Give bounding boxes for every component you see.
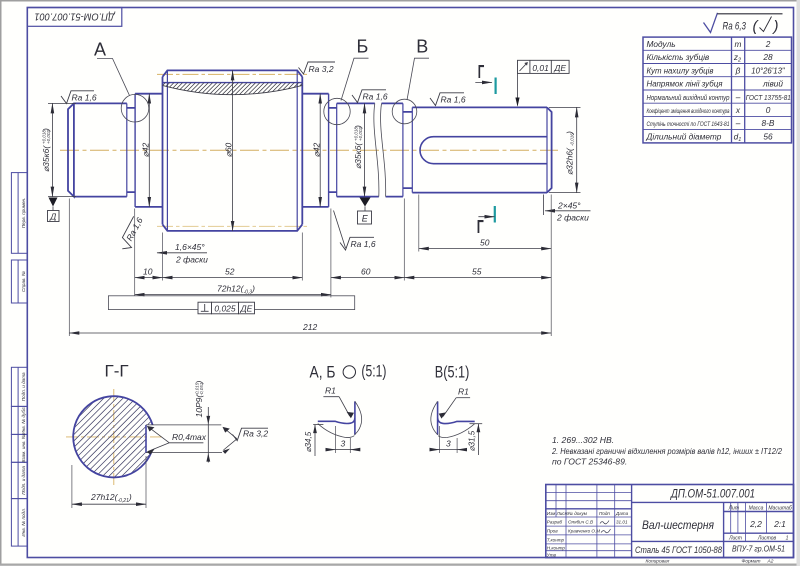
svg-text:3: 3	[446, 439, 451, 449]
roughness Ra3,2 on keyway sides	[224, 428, 238, 450]
svg-text:Олябич С.В: Олябич С.В	[568, 520, 593, 525]
svg-text:2:1: 2:1	[773, 519, 786, 529]
left margin boxes	[11, 173, 27, 546]
R1 label detail V	[456, 397, 470, 399]
svg-text:55: 55	[472, 267, 482, 277]
svg-text:№ докум: № докум	[568, 511, 588, 516]
shaft outline	[68, 70, 552, 231]
svg-text:0,025: 0,025	[214, 304, 236, 314]
svg-text:8-В: 8-В	[762, 118, 775, 128]
svg-text:212: 212	[302, 322, 317, 332]
technical notes	[551, 435, 782, 467]
R1 label detail AB	[323, 396, 339, 398]
main axis centerline	[60, 149, 558, 151]
svg-text:2: 2	[765, 39, 771, 49]
svg-text:Подп. и дата: Подп. и дата	[21, 466, 26, 495]
svg-text:Масштаб: Масштаб	[768, 506, 792, 512]
svg-text:31.01: 31.01	[616, 520, 628, 525]
svg-text:Г: Г	[478, 62, 485, 82]
gear root line	[163, 82, 303, 84]
detail AB profile	[318, 401, 362, 437]
section centerlines	[66, 389, 162, 485]
roughness Ra1,6 rotated (groove A)	[118, 215, 146, 253]
svg-text:Ra 6,3: Ra 6,3	[723, 21, 747, 33]
dim 212	[69, 332, 551, 334]
svg-text:1,6×45°: 1,6×45°	[175, 242, 205, 252]
groove B	[328, 94, 330, 207]
svg-text:): )	[353, 125, 363, 129]
svg-text:Т.контр: Т.контр	[547, 538, 565, 543]
svg-text:(5:1): (5:1)	[361, 362, 386, 381]
svg-text:2 фаски: 2 фаски	[175, 255, 208, 265]
chamfer note 2x45	[544, 195, 591, 216]
datum D flag	[49, 198, 58, 207]
svg-text:ВПУ-7 гр.ОМ-51: ВПУ-7 гр.ОМ-51	[732, 545, 785, 554]
svg-text:Справ. №: Справ. №	[21, 271, 26, 292]
detail circle B	[324, 98, 350, 124]
svg-text:А2: А2	[767, 559, 774, 565]
dimension d60	[232, 70, 234, 231]
svg-text:Коефіцент зміщення вихідного к: Коефіцент зміщення вихідного контура	[647, 108, 730, 115]
roughness Ra1,6 journal2	[352, 90, 386, 103]
svg-text:Нормальний вихідний контур: Нормальний вихідний контур	[647, 93, 730, 102]
svg-text:ДП.ОМ-51.007.001: ДП.ОМ-51.007.001	[35, 10, 116, 21]
svg-text:Напрямок лінії зубця: Напрямок лінії зубця	[647, 79, 724, 89]
svg-text:2,2: 2,2	[749, 519, 762, 529]
svg-text:): )	[772, 18, 779, 35]
svg-text:Ra 1,6: Ra 1,6	[72, 93, 97, 103]
journal 1 (d35k6 left)	[68, 103, 127, 196]
svg-text:Лист: Лист	[728, 536, 742, 542]
svg-text:Кут нахилу зубців: Кут нахилу зубців	[647, 65, 715, 75]
svg-text:2 фаски: 2 фаски	[556, 213, 589, 223]
svg-text:10°26'13": 10°26'13"	[751, 66, 786, 75]
svg-text:1. 269...302 НВ.: 1. 269...302 НВ.	[552, 435, 614, 445]
svg-text:В: В	[416, 36, 428, 56]
svg-text:Б: Б	[357, 37, 369, 57]
gear parameter table	[643, 37, 792, 143]
roughness Ra1,6 journal1	[61, 91, 94, 104]
detail circle A	[121, 94, 149, 122]
svg-text:А, Б: А, Б	[310, 362, 336, 381]
svg-text:Взам. инв. №: Взам. инв. №	[21, 434, 26, 462]
lit sub-columns	[731, 502, 767, 541]
svg-text:по ГОСТ 25346-89.: по ГОСТ 25346-89.	[552, 457, 627, 467]
dimension d42 left	[148, 94, 150, 207]
svg-text:Модуль: Модуль	[647, 39, 676, 49]
svg-text:0,01: 0,01	[532, 63, 549, 73]
svg-text:лівий: лівий	[762, 79, 783, 89]
keyed end d32h6	[412, 107, 551, 192]
extension lines vertical	[69, 195, 551, 337]
svg-text:Ra 3,2: Ra 3,2	[243, 429, 268, 439]
section d42 right	[302, 94, 328, 207]
svg-text:0: 0	[766, 105, 771, 115]
svg-text:Масса: Масса	[749, 506, 764, 512]
long box with perpendicularity frame	[108, 296, 354, 310]
gear tooth hatch band	[148, 76, 327, 100]
svg-text:⌀60: ⌀60	[224, 142, 234, 157]
svg-text:⌀35к6(: ⌀35к6(	[353, 142, 363, 169]
svg-text:–: –	[735, 118, 741, 128]
svg-text:Ra 1,6: Ra 1,6	[363, 92, 388, 102]
svg-text:Ra 1,6: Ra 1,6	[441, 95, 466, 105]
svg-text:2×45°: 2×45°	[557, 201, 581, 211]
dimension d32h6	[549, 107, 581, 192]
svg-text:Кількість зубців: Кількість зубців	[647, 52, 710, 62]
chamfer note 1,6x45	[157, 252, 207, 254]
svg-text:Ступінь точності по ГОСТ 1643-: Ступінь точності по ГОСТ 1643-81	[647, 120, 730, 128]
detail V profile	[431, 401, 475, 437]
svg-text:Ділильний діаметр: Ділильний діаметр	[646, 131, 722, 141]
svg-text:ДП.ОМ-51.007.001: ДП.ОМ-51.007.001	[669, 489, 755, 501]
svg-text:Копировал: Копировал	[646, 559, 670, 565]
section circle with keyway	[0, 386, 308, 486]
svg-text:⌀42: ⌀42	[312, 142, 322, 157]
detail circle V	[392, 99, 417, 124]
svg-text:Ra 1,6: Ra 1,6	[351, 239, 376, 249]
svg-text:Г: Г	[477, 217, 484, 237]
svg-text:Ra 3,2: Ra 3,2	[309, 64, 334, 74]
svg-text:52: 52	[225, 267, 235, 277]
svg-text:β: β	[735, 65, 741, 75]
svg-text:56: 56	[763, 131, 773, 141]
section mark G upper	[495, 78, 497, 95]
dim 27h12	[72, 456, 146, 508]
dim 3 detail AB	[335, 426, 350, 453]
keyway slot	[420, 137, 547, 164]
corner designation box (rotated 180)	[27, 8, 122, 27]
dim 50	[419, 248, 551, 250]
svg-text:1: 1	[786, 536, 789, 542]
runout leader arrow	[517, 73, 519, 105]
svg-text:): )	[194, 381, 204, 385]
svg-text:Дата: Дата	[615, 511, 629, 516]
svg-text:Е: Е	[362, 214, 369, 224]
svg-text:В(5:1): В(5:1)	[435, 362, 470, 381]
svg-text:⌀31,5: ⌀31,5	[468, 430, 477, 451]
svg-text:Перв. примен.: Перв. примен.	[21, 198, 26, 229]
svg-text:⌀34,5: ⌀34,5	[304, 431, 313, 452]
svg-text:x: x	[735, 105, 741, 115]
svg-text:Д: Д	[49, 212, 56, 222]
svg-text:Н.контр: Н.контр	[547, 545, 566, 550]
svg-text:Разраб: Разраб	[547, 520, 563, 525]
svg-text:R1: R1	[325, 386, 336, 396]
svg-text:Листов: Листов	[757, 536, 777, 542]
svg-text:Формат: Формат	[742, 559, 761, 565]
svg-text:Инв. № дубл.: Инв. № дубл.	[21, 406, 26, 434]
svg-text:⌀35к6(: ⌀35к6(	[41, 145, 51, 172]
groove A	[126, 103, 128, 196]
dim 3 detail V	[440, 426, 458, 453]
svg-text:Инв. № подл.: Инв. № подл.	[21, 508, 26, 537]
svg-text:2. Невказані граничні відхилен: 2. Невказані граничні відхилення розмірі…	[551, 446, 782, 456]
keyway width dim 10P9	[207, 407, 209, 463]
svg-text:28: 28	[762, 52, 773, 62]
section d42 left	[135, 94, 162, 207]
dimension d35k6 left	[48, 103, 76, 196]
svg-text:m: m	[735, 39, 742, 49]
dim 60	[331, 277, 404, 279]
svg-text:Утв: Утв	[547, 552, 557, 557]
svg-text:Кравченко О.М: Кравченко О.М	[568, 529, 600, 534]
svg-text:Г-Г: Г-Г	[105, 362, 129, 381]
signatures	[600, 521, 611, 533]
dim 52	[163, 277, 303, 279]
svg-text:Вал-шестерня: Вал-шестерня	[642, 520, 714, 532]
svg-text:R0,4max: R0,4max	[172, 432, 207, 442]
R0,4max leader	[148, 426, 204, 451]
datum E flag	[360, 198, 371, 207]
dim 10	[135, 277, 163, 279]
svg-text:10P9(: 10P9(	[194, 394, 204, 418]
gear d60	[163, 70, 303, 231]
svg-text:Пров: Пров	[547, 529, 558, 534]
dim 55	[404, 277, 551, 279]
keyway notch in section	[145, 425, 147, 453]
roughness Ra3,2 gear	[299, 62, 336, 74]
dim 72h12	[135, 294, 331, 296]
journal 2 (d35k6 right, broken)	[337, 103, 403, 196]
break wavy lines on journal 2	[374, 103, 386, 196]
section mark G lower	[494, 206, 496, 223]
svg-text:⌀32h6(: ⌀32h6(	[564, 147, 574, 175]
svg-text:ДЕ: ДЕ	[553, 63, 566, 73]
svg-text:Подп: Подп	[599, 511, 610, 516]
svg-text:Сталь 45 ГОСТ 1050-88: Сталь 45 ГОСТ 1050-88	[635, 545, 723, 556]
general roughness Ra 6,3	[704, 13, 718, 33]
svg-text:–: –	[735, 92, 741, 102]
svg-text:10: 10	[143, 267, 153, 277]
svg-text:60: 60	[361, 267, 371, 277]
svg-text:R1: R1	[458, 387, 469, 397]
svg-text:3: 3	[341, 439, 346, 449]
svg-text:ДЕ: ДЕ	[240, 304, 253, 314]
svg-text:Лит: Лит	[728, 506, 739, 512]
svg-text:Подп. и дата: Подп. и дата	[21, 372, 26, 401]
runout tolerance frame	[518, 60, 570, 73]
svg-text:Изм Лист: Изм Лист	[547, 511, 569, 516]
svg-text:А: А	[94, 40, 106, 60]
dimension d42 right	[319, 94, 321, 207]
d34,5 dim detail AB	[313, 424, 323, 426]
gear pitch centerlines	[157, 74, 309, 226]
main dividers	[546, 485, 794, 558]
svg-text:): )	[564, 131, 574, 135]
svg-text:50: 50	[480, 238, 490, 248]
svg-text:): )	[41, 128, 51, 132]
svg-text:⌀42: ⌀42	[141, 142, 151, 157]
dimension d35k6 right	[364, 103, 366, 196]
roughness Ra1,6 groove B leader	[334, 211, 346, 249]
svg-text:ГОСТ 13755-81: ГОСТ 13755-81	[746, 93, 791, 102]
left grid	[546, 485, 632, 558]
roughness Ra1,6 keyed end	[430, 93, 464, 106]
groove V	[402, 103, 404, 196]
d31,5 dim detail V	[470, 423, 483, 425]
